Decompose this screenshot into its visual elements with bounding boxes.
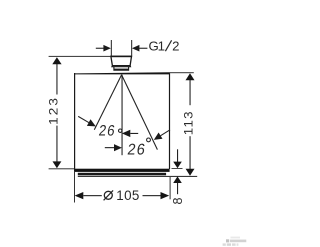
connector flange lip — [112, 66, 131, 67]
svg-text:26: 26 — [98, 123, 117, 140]
dimension G1/2 leader left — [96, 45, 111, 52]
watermark logo row 0 — [231, 237, 241, 239]
dimension 123 extension line top — [49, 56, 111, 57]
spray plate bottom face line — [78, 176, 197, 177]
dimension 123 line upper segment — [56, 64, 57, 95]
dimension 113 extension line top — [170, 72, 194, 73]
spray angle line right — [122, 75, 158, 150]
spray centerline — [122, 75, 123, 155]
svg-text:8: 8 — [171, 198, 185, 205]
svg-text:113: 113 — [182, 110, 195, 135]
dimension 8 arrow bottom — [173, 176, 182, 194]
dimension 8 extension tick — [172, 167, 183, 170]
spray plate — [78, 173, 166, 176]
watermark logo row 1 — [226, 239, 246, 242]
dimension 123 arrow down — [53, 161, 62, 168]
dimension diameter 105 extension line left — [74, 172, 75, 203]
body right edge — [169, 73, 170, 169]
dimension 113 arrow up — [186, 73, 195, 80]
dimension G1/2 leader right — [132, 45, 148, 52]
svg-text:105: 105 — [116, 188, 139, 203]
dimension diameter 105 extension line right — [170, 177, 171, 199]
dimension 123 line lower segment — [56, 126, 57, 162]
diameter symbol — [104, 190, 114, 200]
angle 26 upper leader arrow outer — [78, 116, 96, 126]
label G1/2 — [149, 38, 180, 53]
dimension 8 arrow top — [173, 149, 182, 168]
angle 26 lower leader arrow outer — [154, 130, 170, 140]
svg-text:2: 2 — [172, 38, 179, 53]
body left edge — [74, 73, 75, 169]
angle 26 upper leader arrow inner — [122, 130, 138, 137]
dimension G1/2 extension line left — [111, 40, 112, 56]
connector nut — [110, 56, 132, 66]
label 8 — [171, 198, 185, 205]
label 105 — [116, 188, 139, 203]
dimension 113 arrow down — [186, 169, 195, 176]
dimension 113 line lower segment — [190, 136, 191, 169]
label 113 — [182, 110, 195, 135]
dimension 123 extension line bottom — [49, 168, 75, 169]
dimension diameter 105 arrow right — [143, 192, 170, 199]
dimension G1/2 extension line right — [131, 40, 132, 56]
dimension 123 arrow up — [52, 57, 61, 64]
dimension diameter 105 arrow left — [75, 192, 102, 199]
connector collar — [114, 67, 129, 70]
watermark logo row 2 — [223, 243, 239, 245]
body top edge — [74, 72, 169, 74]
angle 26 lower label — [126, 138, 150, 159]
svg-text:1: 1 — [158, 38, 165, 53]
spray angle line left — [94, 75, 121, 130]
svg-text:123: 123 — [47, 96, 60, 125]
svg-text:26: 26 — [126, 141, 147, 158]
angle 26 lower leader arrow inner — [105, 144, 122, 151]
label 123 — [47, 96, 60, 125]
angle 26 upper label — [98, 123, 122, 140]
body bottom rim — [74, 169, 170, 172]
dimension 113 line upper segment — [190, 80, 191, 105]
